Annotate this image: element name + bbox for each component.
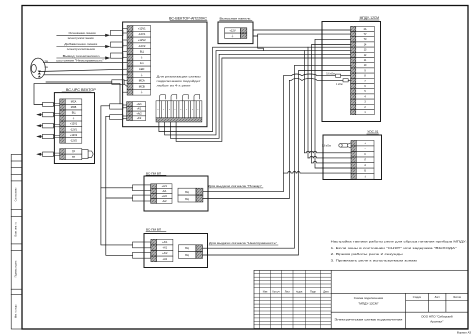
svg-text:МПДУ-12СМ: МПДУ-12СМ xyxy=(360,16,380,20)
svg-text:⏚: ⏚ xyxy=(140,90,143,94)
svg-text:ВЦ: ВЦ xyxy=(185,191,189,194)
svg-text:№док: №док xyxy=(296,291,303,294)
notes: relay tactics setup xyxy=(331,240,467,263)
svg-text:подключения подойдет: подключения подойдет xyxy=(157,79,202,83)
label: Добавочная линия электропитания xyxy=(64,42,98,51)
title: ООО НПО Сибирский Арсенал xyxy=(421,314,453,323)
svg-text:LED: LED xyxy=(139,67,144,71)
svg-text:Изм: Изм xyxy=(263,291,268,294)
svg-text:Подпись и дата: Подпись и дата xyxy=(16,260,18,277)
svg-text:⏚: ⏚ xyxy=(140,55,143,59)
svg-text:Кол.уч: Кол.уч xyxy=(273,291,281,294)
svg-text:-А/2: -А/2 xyxy=(162,258,167,261)
wire: drop from relay net 1 to A2 terminal 4 xyxy=(307,47,309,158)
U1 stub box S2 with outgoing arrow xyxy=(43,112,54,116)
wire: power ground to A1 terminal 2 xyxy=(253,34,351,36)
cable stub box G1 (main power line) xyxy=(111,30,123,35)
svg-text:ТУ: ТУ xyxy=(364,33,367,36)
svg-text:-12V2: -12V2 xyxy=(138,44,146,48)
svg-text:с: с xyxy=(175,109,176,111)
svg-text:Арсенал": Арсенал" xyxy=(430,320,443,324)
wire: power +12V to A1 terminal 1 xyxy=(253,29,351,31)
svg-text:ТР: ТР xyxy=(72,150,76,153)
U3 output strip ВЦ (2 terminals, hatch right) xyxy=(178,188,203,202)
U1 terminal strip (8 terminals) xyxy=(60,99,82,143)
wire: U3 Пожар output 2 up to resistor R2 wire xyxy=(203,80,290,198)
svg-text:к: к xyxy=(157,109,158,111)
relay module U4 ВС-ПМ ВП outline xyxy=(144,234,208,268)
svg-text:+А/2: +А/2 xyxy=(136,112,142,115)
svg-text:Вывод технического: Вывод технического xyxy=(63,54,101,58)
U4 stub box left 2 xyxy=(133,252,151,258)
svg-text:БЦ: БЦ xyxy=(72,112,76,115)
U3 stub box left 1 xyxy=(133,185,151,191)
svg-text:Схема подключения: Схема подключения xyxy=(354,296,384,300)
U3 stub box left 2 xyxy=(133,195,151,201)
svg-text:Выносная панель: Выносная панель xyxy=(220,17,251,21)
U2 main terminal strip X1 (12 terminals) xyxy=(127,26,150,96)
svg-text:5,6 кОм: 5,6 кОм xyxy=(322,144,331,147)
cable stub box G2 (backup power line) xyxy=(111,42,123,47)
svg-text:Основная линия: Основная линия xyxy=(69,31,97,35)
svg-text:-12V2: -12V2 xyxy=(70,139,77,142)
stub wires G1-G3 to U2 terminals xyxy=(123,28,128,118)
wire: branch of Пожар1 to A2 terminal 7 xyxy=(284,172,352,174)
wire: relay contact 3 loop to A1 row7 xyxy=(170,54,350,138)
panel U2 ВС-ВЕКТОР-АП220КС outline xyxy=(123,22,207,127)
wire: U3 Пожар output 1 up to resistor R1 wire xyxy=(203,76,284,192)
svg-text:к: к xyxy=(169,109,170,111)
svg-text:ООО НПО "Сибирский: ООО НПО "Сибирский xyxy=(421,314,453,318)
svg-text:+А/2: +А/2 xyxy=(162,252,168,255)
device A1 МПДУ-12СМ outline xyxy=(322,22,381,122)
U2 note text (any of 4 relays) xyxy=(157,75,202,88)
svg-text:Подп: Подп xyxy=(310,291,316,294)
wire: branch of bus B to U3 stub2 xyxy=(106,197,133,199)
U1 stub box S5 with outgoing arrow xyxy=(43,152,54,156)
svg-text:Для выдачи сигнала "Пожар": Для выдачи сигнала "Пожар" xyxy=(208,184,262,188)
svg-text:Лист: Лист xyxy=(285,291,291,294)
wire: U4 Неисправность output 1 to A1 row8 xyxy=(203,65,351,248)
svg-text:Добавочная линия: Добавочная линия xyxy=(64,42,98,46)
svg-text:Стадия: Стадия xyxy=(413,296,422,299)
svg-text:ВС-ПМ ВП: ВС-ПМ ВП xyxy=(146,171,161,175)
svg-text:ВС-ПМ ВП: ВС-ПМ ВП xyxy=(146,227,161,231)
U1 stub box S3 with outgoing arrow xyxy=(43,124,54,128)
svg-text:3. Привязать реле к использ: 3. Привязать реле к используемым зонам xyxy=(331,258,417,262)
wire: U2 МСВ to stub B1 xyxy=(46,81,112,83)
svg-text:-А/2: -А/2 xyxy=(137,117,142,120)
wire: relay contact 2 loop to A1 row6 xyxy=(165,51,351,135)
label: Вывод технического состояния Неисправность xyxy=(56,54,104,63)
wire: A1 row3 down to A2 terminal 6 xyxy=(315,39,351,168)
U4 terminal strip (4 terminals) xyxy=(151,239,173,261)
cable stub box B1 (RS-485 МСА/МСВ) xyxy=(112,80,124,85)
relay module U3 ВС-ПМ ВП outline xyxy=(144,176,208,211)
cable stub box LB2 (loop А/2) xyxy=(110,115,123,120)
resistor R1 5,6 кОм xyxy=(336,74,341,77)
wire: relay contact 4 loop to A1 row8 xyxy=(176,58,350,141)
revision table grid xyxy=(254,270,331,328)
svg-text:ВЦ: ВЦ xyxy=(185,198,189,201)
svg-text:1 кОм: 1 кОм xyxy=(336,83,343,86)
svg-text:к: к xyxy=(192,109,193,111)
A2 terminal strip (7 terminals) xyxy=(351,140,374,179)
external power panel outline xyxy=(218,22,253,44)
svg-text:⏚: ⏚ xyxy=(140,73,143,77)
svg-text:любое из 4-х реле: любое из 4-х реле xyxy=(157,84,192,88)
svg-text:МСВ: МСВ xyxy=(139,84,145,88)
U4 stub box left 1 xyxy=(133,242,151,248)
wire: U2 МСА to stub xyxy=(44,74,127,76)
U4 output strip ВЦ (2 terminals, hatch right) xyxy=(179,245,203,259)
wire: relay contact 1 loop to A1 row5 xyxy=(159,47,351,131)
svg-text:ВЦ: ВЦ xyxy=(185,247,189,250)
svg-text:ВС-ЧРС ВЕКТОР: ВС-ЧРС ВЕКТОР xyxy=(66,88,96,92)
svg-text:ВЦ: ВЦ xyxy=(185,254,189,257)
U2 lower terminal strip X2 (4 terminals) xyxy=(127,102,146,121)
relay contact bridges K1-K4 xyxy=(160,95,200,101)
svg-text:к: к xyxy=(180,109,181,111)
svg-text:-12V1: -12V1 xyxy=(70,128,77,131)
svg-text:Для реализации схемы: Для реализации схемы xyxy=(157,75,201,79)
title: Схема подключения МПДУ-12СМ xyxy=(354,296,384,305)
label: Основная линия электропитания xyxy=(68,31,96,40)
svg-text:Листов: Листов xyxy=(453,296,461,299)
sounder BA1 (light/sound annunciator) xyxy=(31,58,46,79)
svg-text:с: с xyxy=(186,109,187,111)
svg-text:-А/1: -А/1 xyxy=(137,108,142,111)
U1 tamper strip ТР (2 terminals) xyxy=(60,149,82,160)
svg-text:-12V1: -12V1 xyxy=(138,32,146,36)
wire: R2 wire with wide hops into A1 row11 xyxy=(289,79,343,81)
device A2 УОС-01 outline xyxy=(323,135,382,180)
svg-text:состояния "Неисправность": состояния "Неисправность" xyxy=(56,59,104,63)
svg-text:электропитания: электропитания xyxy=(68,36,95,40)
svg-text:Лист: Лист xyxy=(435,296,441,299)
U2 relay contact strip (8 cells, 4 relays) xyxy=(156,101,202,122)
svg-text:УОС-01: УОС-01 xyxy=(367,130,379,134)
svg-text:Электрическая схема подключени: Электрическая схема подключения xyxy=(334,317,402,321)
U1 stub box S1 (RS bus) xyxy=(43,102,54,106)
svg-text:+12V2: +12V2 xyxy=(70,134,78,137)
wire: RS bus П-loop U1.S1 to U2.LB1 xyxy=(34,84,120,105)
svg-text:1. Если зоны в состоянии "С: 1. Если зоны в состоянии "СНЯТ" или заде… xyxy=(331,246,457,250)
svg-text:-А/1: -А/1 xyxy=(162,247,167,250)
svg-text:Настройка тактики работы реле: Настройка тактики работы реле для сброса… xyxy=(331,240,467,244)
svg-text:Согласовано: Согласовано xyxy=(16,187,18,202)
svg-text:МСА: МСА xyxy=(139,79,145,83)
wire: A1 row4 down to A2 terminal 5 xyxy=(312,45,351,163)
svg-text:5,6 кОм: 5,6 кОм xyxy=(326,72,335,75)
svg-text:+А/1: +А/1 xyxy=(162,241,168,244)
wire: sounder Св lower to U2 terminal LED xyxy=(39,69,127,71)
panel U1 ВС-ЧРС ВЕКТОР outline xyxy=(54,93,94,164)
svg-text:Взам. инв. №: Взам. инв. № xyxy=(15,222,18,237)
svg-text:Для выдачи сигнала "Неисправно: Для выдачи сигнала "Неисправность" xyxy=(209,241,277,245)
svg-text:"МПДУ-12СМ": "МПДУ-12СМ" xyxy=(358,301,378,305)
svg-text:+12V: +12V xyxy=(229,29,236,33)
title block (GOST) xyxy=(254,270,468,328)
U3 terminal strip (4 terminals) xyxy=(151,184,172,204)
svg-text:Дата: Дата xyxy=(323,291,329,294)
svg-text:-А/2: -А/2 xyxy=(162,200,167,203)
wire: R1 wire with wide hops into A1 row10 xyxy=(284,74,336,76)
svg-text:МСВ: МСВ xyxy=(71,106,77,109)
resistor R2 1 кОм xyxy=(343,79,348,82)
A1 terminal strip (17 terminals) xyxy=(351,26,375,114)
svg-text:+12V1: +12V1 xyxy=(138,26,146,30)
svg-text:+А/1: +А/1 xyxy=(162,185,168,188)
svg-text:БЦ: БЦ xyxy=(140,50,144,54)
svg-text:-А/1: -А/1 xyxy=(162,190,167,193)
wire: branch of bus A to U3 stub1 xyxy=(101,187,133,189)
title block captions xyxy=(263,291,462,299)
left margin column boxes xyxy=(11,154,22,329)
svg-text:с: с xyxy=(163,109,164,111)
svg-text:ВС-ВЕКТОР-АП220КС: ВС-ВЕКТОР-АП220КС xyxy=(169,16,208,20)
svg-text:⏚: ⏚ xyxy=(231,33,234,38)
power panel terminal strip (+12V, ground) xyxy=(225,28,247,39)
U1 stub box S4 with outgoing arrow xyxy=(43,134,54,138)
svg-text:ТР: ТР xyxy=(72,156,76,159)
cable stub box LB1 (loop А/1) xyxy=(110,104,123,109)
wire: loop bus B (U2.LB2 down to U4 stub2) xyxy=(106,116,133,255)
svg-text:с: с xyxy=(198,109,199,111)
svg-text:Инв. № подл.: Инв. № подл. xyxy=(15,303,18,318)
wire: drop from relay net 2 to A2 terminal 3 xyxy=(304,51,306,153)
wire: sounder Св upper to U2 terminal 1m xyxy=(44,62,128,64)
svg-text:+12V1: +12V1 xyxy=(70,123,78,126)
wire: U4 Неисправность output 2 to A1 row9 xyxy=(203,71,351,256)
svg-text:+А/1: +А/1 xyxy=(136,103,142,106)
wire: ground branch jog down joining relay net 2 xyxy=(258,36,264,51)
svg-text:2А: 2А xyxy=(364,28,367,31)
svg-text:2. Время работы реле 2 секу: 2. Время работы реле 2 секунды xyxy=(331,252,403,256)
left margin vertical captions xyxy=(15,187,18,318)
U1 tamper connector wedge xyxy=(82,150,93,159)
svg-text:⏚: ⏚ xyxy=(364,174,366,178)
svg-text:электропитания: электропитания xyxy=(67,47,96,51)
cable stub box G3 (fault output) xyxy=(111,53,123,58)
svg-text:Формат А3: Формат А3 xyxy=(457,331,472,335)
resistor R3 5,6 кОм (inside A2) xyxy=(339,143,351,148)
svg-text:МСА: МСА xyxy=(71,101,77,104)
svg-text:+А/2: +А/2 xyxy=(162,195,168,198)
wire: loop bus A (U2.LB1 down to U3/U4 stub1) xyxy=(101,106,133,245)
svg-text:+12V2: +12V2 xyxy=(138,38,146,42)
